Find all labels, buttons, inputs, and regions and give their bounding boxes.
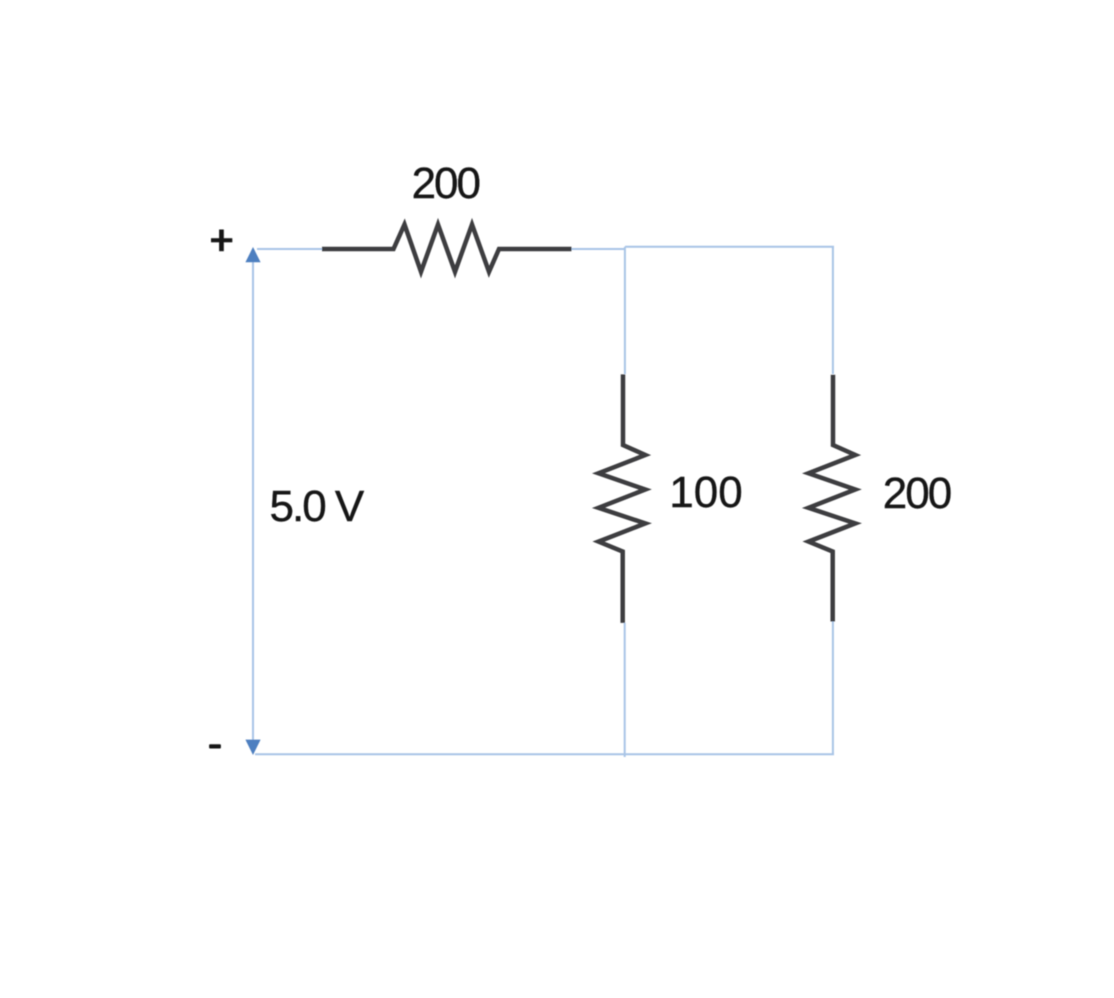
svg-text:5.0 V: 5.0 V bbox=[270, 482, 365, 531]
svg-text:100: 100 bbox=[669, 468, 742, 517]
svg-text:200: 200 bbox=[883, 469, 951, 518]
svg-text:200: 200 bbox=[412, 159, 480, 208]
